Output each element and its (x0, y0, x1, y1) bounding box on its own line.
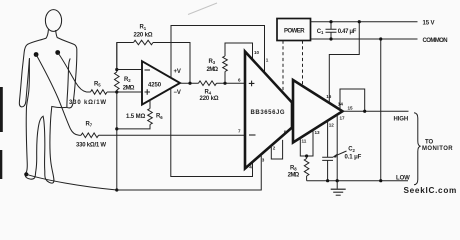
resistor R5 (87, 91, 91, 93)
svg-text:MONITOR: MONITOR (422, 146, 453, 152)
svg-text:R5: R5 (94, 82, 101, 88)
svg-text:12: 12 (329, 123, 335, 128)
junction dot pin17 on LOW (336, 179, 339, 182)
op-amp U1 4250 (142, 61, 180, 104)
svg-text:330 kΩ/1 W: 330 kΩ/1 W (76, 143, 106, 149)
dashed wire power to U3 (302, 41, 304, 87)
svg-text:13: 13 (315, 130, 321, 135)
svg-text:1: 1 (266, 57, 269, 62)
svg-text:3: 3 (262, 158, 265, 163)
scan artifact left edge smudge 1 (0, 87, 3, 132)
plus sign U2 (249, 81, 255, 87)
svg-text:16: 16 (326, 94, 332, 99)
resistor R2 (115, 72, 120, 90)
svg-text:9: 9 (284, 130, 287, 135)
svg-text:LOW: LOW (396, 176, 410, 182)
junction dot R1 feedback on output (188, 82, 191, 85)
arrow C2 pointer (335, 151, 347, 156)
minus sign U2 (249, 134, 256, 136)
svg-text:11: 11 (302, 139, 307, 144)
svg-text:220 kΩ: 220 kΩ (200, 96, 219, 102)
electrode E2 (left chest) (34, 52, 39, 57)
svg-text:−V: −V (174, 90, 181, 96)
junction dot C2 on LOW (326, 179, 329, 182)
wire rail plus node down to R6 node (116, 92, 118, 129)
ground symbol (331, 181, 346, 196)
capacitor C2 (322, 157, 333, 181)
junction dot pin14 strap on output (363, 110, 366, 113)
wire LOW line (307, 180, 408, 182)
svg-text:COMMON: COMMON (423, 38, 448, 44)
wire COMMON rail (311, 38, 418, 40)
svg-text:+V: +V (174, 69, 181, 75)
wire plus input (117, 91, 142, 93)
wire rail R6 node down to common rail (116, 129, 118, 190)
junction dot COMMON rail (379, 37, 382, 40)
wire U3 output HIGH (343, 110, 409, 112)
svg-text:SeekIC.com: SeekIC.com (404, 186, 457, 195)
svg-text:15 V: 15 V (423, 21, 435, 27)
svg-text:R4: R4 (205, 90, 212, 96)
wire R4 to pin 6 (217, 82, 246, 84)
junction dot plus node (115, 90, 118, 93)
patient body figure (19, 10, 76, 184)
wire pin 3 to patient common rail (117, 155, 261, 191)
svg-text:C1: C1 (317, 29, 324, 35)
junction dot minus node (115, 68, 118, 71)
resistor R8 (306, 156, 308, 159)
svg-text:220 kΩ: 220 kΩ (134, 32, 153, 38)
junction dot common rail node (115, 188, 118, 191)
svg-text:6: 6 (238, 78, 241, 83)
svg-text:7: 7 (238, 129, 241, 134)
svg-text:14: 14 (338, 101, 344, 106)
svg-text:C2: C2 (348, 147, 355, 153)
plus sign U1 (145, 89, 151, 95)
wire 15V to pin 16 (329, 22, 359, 103)
svg-text:2 MΩ: 2 MΩ (123, 86, 135, 92)
power module box (277, 19, 311, 41)
capacitor C1 (326, 22, 337, 39)
svg-text:TO: TO (425, 140, 433, 146)
wire minus input (117, 69, 142, 71)
dashed wire power to U2 (282, 41, 284, 93)
resistor R1 (134, 40, 154, 45)
svg-text:R6: R6 (156, 114, 163, 120)
junction dot C1 bottom (329, 37, 332, 40)
junction dot R3 node (223, 82, 226, 85)
scan artifact left edge smudge 2 (0, 150, 2, 179)
svg-text:R2: R2 (124, 77, 131, 83)
electrode E3 (left ankle) (24, 172, 28, 176)
svg-text:R8: R8 (290, 165, 297, 171)
junction dot COMMON on LOW (379, 179, 382, 182)
minus sign U1 (145, 69, 151, 71)
wire pins 2-9 strap (271, 140, 282, 159)
junction dot C1 top (329, 20, 332, 23)
resistor R3 (224, 72, 226, 84)
svg-text:2: 2 (273, 146, 276, 151)
svg-text:330 kΩ/1W: 330 kΩ/1W (69, 100, 106, 106)
svg-text:10: 10 (254, 50, 260, 55)
junction dot 15V rail (358, 20, 361, 23)
resistor R4 (199, 81, 217, 86)
svg-text:0.1 μF: 0.1 μF (345, 155, 362, 161)
svg-text:HIGH: HIGH (394, 117, 409, 123)
wire pins 11-13 strap (300, 130, 313, 156)
wire R1 feedback left leg (117, 43, 134, 70)
wire -V stub down (171, 89, 253, 177)
svg-text:2 MΩ: 2 MΩ (288, 173, 300, 179)
svg-text:2 MΩ: 2 MΩ (207, 67, 219, 73)
svg-text:0.47 μF: 0.47 μF (338, 29, 357, 35)
svg-text:R3: R3 (209, 59, 216, 65)
svg-text:R7: R7 (86, 121, 93, 127)
scan artifact top scratch (188, 3, 217, 15)
svg-text:4250: 4250 (148, 83, 162, 89)
wire electrode E1 to R5 (58, 53, 87, 93)
wire electrode E2 to R7 (36, 55, 79, 136)
wire +V stub and isolated supply to pin 1 (171, 26, 265, 78)
wire electrode E3 to common rail (26, 174, 117, 190)
svg-text:1.5 MΩ: 1.5 MΩ (126, 114, 146, 120)
wire R1 feedback right leg (153, 43, 190, 84)
svg-text:R1: R1 (140, 25, 147, 31)
resistor R7 (79, 134, 81, 136)
junction dot R6 node (115, 127, 118, 130)
wire pin 17 stub (336, 115, 338, 181)
wire pin 12 stub (327, 121, 329, 158)
wire COMMON drop to LOW (380, 39, 382, 181)
electrode E1 (right chest) (55, 50, 60, 55)
svg-text:17: 17 (340, 115, 346, 120)
svg-text:4: 4 (249, 165, 252, 170)
resistor R6 (149, 100, 151, 109)
svg-text:BB3656JG: BB3656JG (251, 110, 285, 116)
svg-text:15: 15 (348, 106, 354, 111)
brace to monitor (414, 113, 421, 185)
wire U1 output (180, 82, 199, 84)
junction dot R8 top (305, 154, 308, 157)
isolation amplifier U2 BB3656JG (245, 52, 292, 169)
wire pin 14 feedback strap (340, 89, 365, 111)
wire input rail vertical (116, 43, 118, 73)
svg-text:POWER: POWER (284, 28, 305, 34)
wire rail R2 to plus node (116, 90, 118, 92)
wire 15V rail (311, 21, 418, 23)
output amplifier U3 (293, 80, 343, 143)
